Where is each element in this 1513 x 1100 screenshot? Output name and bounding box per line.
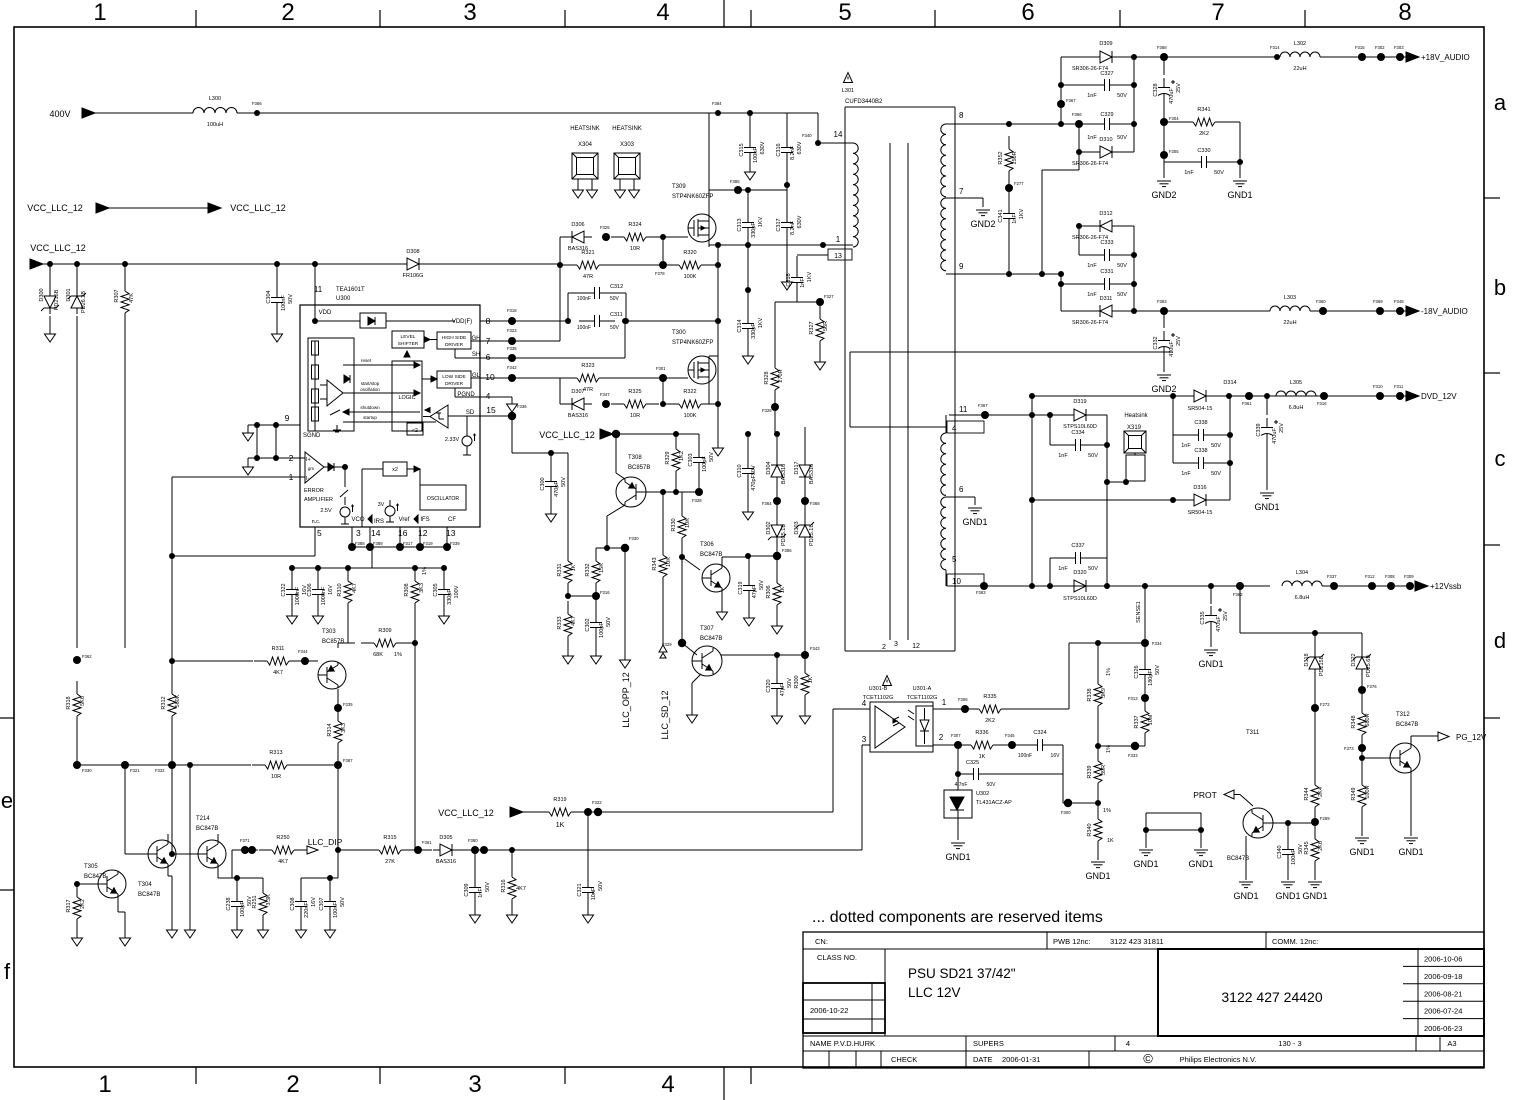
svg-text:R332: R332: [585, 563, 591, 576]
resistor R250 4K7: [259, 849, 272, 851]
svg-text:50V: 50V: [759, 580, 765, 590]
svg-text:SGND: SGND: [303, 433, 321, 439]
svg-text:50V: 50V: [1211, 443, 1221, 449]
svg-text:D320: D320: [1073, 570, 1086, 576]
wire pin 11 row: [949, 414, 985, 416]
svg-text:CHECK: CHECK: [891, 1055, 917, 1064]
title block class cell: [884, 949, 886, 1036]
svg-text:F376: F376: [1367, 684, 1377, 689]
svg-text:SR306-26-F74: SR306-26-F74: [1072, 161, 1108, 167]
wire VCC_LLC_12 rail: [41, 263, 386, 265]
wire 400V rail: [93, 112, 193, 114]
wire T311 collector: [1251, 805, 1253, 810]
svg-text:100uH: 100uH: [207, 122, 223, 128]
optocoupler U301 box: [870, 702, 933, 752]
svg-text:HEATSINK: HEATSINK: [570, 126, 600, 132]
wire SD net down: [511, 416, 513, 453]
svg-text:14: 14: [834, 130, 843, 139]
column tick top: [750, 10, 752, 27]
svg-text:1nF: 1nF: [1087, 93, 1097, 99]
resistor R306 1K: [776, 556, 778, 572]
svg-text:2K2: 2K2: [1199, 131, 1209, 137]
wire logic to low side driver: [422, 378, 431, 380]
svg-text:D307: D307: [571, 389, 584, 395]
svg-text:630V: 630V: [797, 141, 803, 154]
resistor R337 10M: [1144, 698, 1146, 711]
wire C338 right rail: [1229, 396, 1231, 500]
svg-text:1nF: 1nF: [1181, 471, 1191, 477]
svg-text:F339: F339: [450, 541, 460, 546]
svg-text:D304: D304: [766, 461, 772, 474]
svg-text:D309: D309: [1099, 41, 1112, 47]
svg-text:100pF: 100pF: [599, 622, 605, 638]
svg-text:3K3: 3K3: [341, 723, 347, 733]
row tick right: [1484, 372, 1500, 374]
svg-text:T300: T300: [672, 330, 686, 336]
vertical gate t300 net: [559, 378, 561, 404]
svg-text:100nF: 100nF: [577, 296, 591, 302]
svg-text:F364: F364: [762, 501, 772, 506]
svg-text:R311: R311: [272, 646, 285, 652]
svg-text:12: 12: [912, 643, 920, 650]
wire T304 emitter: [167, 867, 169, 876]
svg-text:4K7: 4K7: [352, 583, 358, 593]
svg-text:470uF: 470uF: [1272, 428, 1278, 444]
svg-text:SD: SD: [466, 410, 475, 416]
svg-text:F316: F316: [600, 590, 610, 595]
svg-text:NAME P.V.D.HURK: NAME P.V.D.HURK: [810, 1039, 875, 1048]
svg-text:4: 4: [862, 699, 867, 708]
svg-text:DRIVER: DRIVER: [445, 381, 464, 387]
svg-text:n.c.: n.c.: [312, 519, 321, 525]
ground GND1 under T311: [1239, 881, 1253, 883]
svg-text:R344: R344: [1304, 787, 1310, 800]
zener D301 PD26.2B: [76, 264, 78, 290]
svg-text:100K: 100K: [684, 413, 697, 419]
svg-text:F362: F362: [82, 654, 92, 659]
junction F305: [1160, 151, 1168, 159]
svg-text:HEATSINK: HEATSINK: [612, 126, 642, 132]
shunt regulator U302 TL431ACZ-AP: [957, 774, 959, 790]
transformer pin 4 box: [947, 421, 984, 433]
svg-text:25V: 25V: [1176, 336, 1182, 346]
svg-text:4: 4: [952, 424, 957, 433]
svg-text:C314: C314: [737, 319, 743, 332]
svg-text:C321: C321: [577, 883, 583, 896]
svg-text:6: 6: [486, 352, 491, 362]
column tick bottom: [379, 1067, 381, 1084]
svg-text:C307: C307: [319, 897, 325, 910]
junction dots on VCC rail: [47, 261, 53, 267]
svg-text:BC847B: BC847B: [1396, 722, 1418, 728]
capacitor C309 1nF 50V: [474, 850, 476, 878]
svg-text:GND1: GND1: [1275, 891, 1300, 901]
svg-text:150R: 150R: [1012, 151, 1018, 164]
svg-text:630V: 630V: [760, 141, 766, 154]
svg-text:-18V_AUDIO: -18V_AUDIO: [1421, 307, 1468, 316]
junction F387: [334, 761, 342, 769]
svg-text:10K: 10K: [685, 518, 691, 528]
svg-text:5K6: 5K6: [80, 696, 86, 706]
capacitor C317 8.2nF 630V: [786, 185, 788, 212]
svg-text:D305: D305: [439, 835, 452, 841]
net PG_12V: [1438, 732, 1449, 741]
junction F300: [1064, 799, 1072, 807]
capacitor C305 330pF 100V: [443, 568, 445, 580]
svg-text:F318: F318: [507, 308, 517, 313]
svg-text:3K9: 3K9: [1101, 688, 1107, 698]
junction F347: [602, 400, 610, 408]
net LLC_SD_12 stub: [659, 645, 667, 652]
junction C335: [1208, 583, 1214, 589]
svg-text:R345: R345: [1304, 841, 1310, 854]
svg-text:1KV: 1KV: [1019, 208, 1025, 219]
transformer pin 10 box: [947, 574, 984, 586]
svg-text:STP4NK60ZFP: STP4NK60ZFP: [672, 194, 713, 200]
svg-text:F310: F310: [1373, 384, 1383, 389]
svg-text:400V: 400V: [49, 109, 70, 119]
svg-text:3: 3: [468, 1071, 481, 1098]
wire cap stack bus: [292, 567, 444, 569]
diode D310 SR306-26-F74: [1078, 124, 1080, 152]
svg-text:BC857B: BC857B: [322, 639, 344, 645]
title block check row: [803, 1050, 1484, 1052]
wire to opto pin4: [584, 811, 833, 813]
net VCC_LLC_12 arrow 2: [208, 203, 221, 213]
ground GND2 under C332: [1157, 374, 1171, 376]
svg-text:2006-10-22: 2006-10-22: [810, 1006, 848, 1015]
wire T306 base: [682, 557, 700, 570]
capacitor C312 100nF 50V: [567, 293, 569, 321]
svg-text:470uF: 470uF: [1216, 616, 1222, 632]
svg-text:C300: C300: [540, 477, 546, 490]
svg-text:15: 15: [486, 405, 496, 415]
capacitor C337 1nF 50V: [1049, 558, 1051, 586]
svg-text:Vref: Vref: [399, 517, 410, 523]
ground arrow PGND: [511, 397, 513, 404]
capacitor C326 180pF 50V: [1144, 643, 1146, 660]
svg-text:F345: F345: [1005, 733, 1015, 738]
svg-text:R327: R327: [809, 321, 815, 334]
svg-text:50V: 50V: [1117, 93, 1127, 99]
svg-text:SR504-15: SR504-15: [1188, 406, 1213, 412]
wire T307 base: [682, 643, 697, 655]
svg-text:100nF: 100nF: [753, 147, 759, 163]
svg-text:1K: 1K: [1107, 838, 1114, 844]
junction F347b: [981, 411, 989, 419]
svg-text:R308: R308: [404, 583, 410, 596]
svg-text:F363: F363: [1157, 299, 1167, 304]
svg-text:2006-08-21: 2006-08-21: [1424, 989, 1462, 998]
svg-text:D314: D314: [1223, 380, 1236, 386]
svg-text:TEA1601T: TEA1601T: [336, 287, 365, 293]
svg-text:C308: C308: [290, 897, 296, 910]
wire T305 base: [76, 765, 78, 884]
resistor R323 47R: [564, 377, 577, 379]
wire opto LED cathode: [957, 745, 959, 774]
svg-text:F387: F387: [343, 758, 353, 763]
diode D311 SR306-26-F74: [1060, 284, 1062, 311]
capacitor C315 100nF 630V: [749, 113, 751, 136]
svg-text:CUFD3440B2: CUFD3440B2: [845, 99, 883, 105]
junction F368b: [801, 497, 809, 505]
wire pin9 to D310 net: [1041, 170, 1043, 274]
ground arrow for D300: [49, 316, 51, 334]
svg-text:1%: 1%: [394, 652, 402, 658]
svg-text:D322: D322: [1351, 653, 1357, 666]
svg-text:oscillation: oscillation: [360, 387, 380, 392]
capacitor C319 47pF 50V: [748, 557, 750, 575]
switch and 2.5V source: [344, 467, 346, 487]
svg-text:4K7: 4K7: [273, 670, 283, 676]
svg-text:F330: F330: [82, 768, 92, 773]
resistor R328 270R: [774, 302, 776, 355]
svg-text:F386: F386: [782, 548, 792, 553]
svg-text:BAS316: BAS316: [809, 464, 815, 484]
wire T308 base: [644, 491, 663, 493]
capacitor C300 470pF 50V: [550, 453, 552, 471]
sheet fold mark top: [723, 0, 725, 27]
svg-text:STPS10L60D: STPS10L60D: [1063, 596, 1097, 602]
svg-text:330pF: 330pF: [751, 323, 757, 339]
svg-text:F304: F304: [1169, 116, 1179, 121]
svg-text:1nF: 1nF: [1058, 566, 1068, 572]
junction F386b: [1075, 120, 1083, 128]
svg-text:D317: D317: [794, 461, 800, 474]
svg-text:47K: 47K: [129, 293, 135, 303]
svg-text:R321: R321: [581, 250, 594, 256]
svg-text:50V: 50V: [1211, 471, 1221, 477]
svg-text:10R: 10R: [271, 774, 281, 780]
svg-text:1: 1: [93, 0, 106, 26]
svg-text:2: 2: [281, 0, 294, 26]
junction F342: [508, 374, 516, 382]
svg-text:T304: T304: [138, 882, 152, 888]
resistor R251 3.3K: [262, 880, 264, 893]
wire VDD pin 11: [314, 264, 316, 321]
junction F316b: [1320, 392, 1328, 400]
svg-text:6: 6: [959, 485, 964, 494]
svg-text:F306: F306: [958, 697, 968, 702]
svg-text:1nF: 1nF: [478, 888, 484, 898]
capacitor C340 100nF 50V: [1287, 823, 1289, 840]
wire T303 emitter: [337, 643, 339, 648]
junction F333: [1131, 742, 1139, 750]
junction F301: [659, 374, 667, 382]
resistor R321 47R: [564, 264, 577, 266]
svg-text:R328: R328: [764, 371, 770, 384]
wire prot rail: [1240, 632, 1362, 634]
svg-text:gm: gm: [308, 466, 315, 471]
reserved component placeholder: [1146, 812, 1201, 814]
diode at error amp out: [328, 463, 334, 471]
x2 box small: [407, 423, 423, 435]
ground GND1 under R340: [1091, 861, 1105, 863]
svg-text:L303: L303: [1284, 295, 1296, 301]
svg-text:12: 12: [418, 528, 428, 538]
wire T311 base from prot: [1252, 803, 1254, 805]
warning triangle L301: [844, 73, 853, 83]
svg-text:R317: R317: [66, 899, 72, 912]
svg-text:F367: F367: [978, 403, 988, 408]
svg-text:R343: R343: [652, 557, 658, 570]
resistor R312 560K: [171, 681, 173, 694]
svg-text:BC847B: BC847B: [84, 874, 106, 880]
svg-text:BC847B: BC847B: [700, 636, 722, 642]
svg-text:LLC 12V: LLC 12V: [908, 985, 961, 1000]
svg-text:Philips Electronics N.V.: Philips Electronics N.V.: [1180, 1055, 1257, 1064]
junction F373: [1358, 744, 1366, 752]
svg-text:LOGIC: LOGIC: [398, 395, 415, 401]
wire T311 collector to node: [1270, 822, 1315, 824]
svg-text:PWB 12nc:: PWB 12nc:: [1053, 937, 1091, 946]
junction F304: [1160, 118, 1168, 126]
wire GL row: [512, 377, 560, 379]
svg-text:F300: F300: [1061, 810, 1071, 815]
vertical halfbridge: [717, 245, 719, 265]
optocoupler LED box: [916, 706, 933, 746]
svg-text:100pF: 100pF: [702, 456, 708, 472]
svg-text:I+: I+: [306, 457, 311, 463]
svg-text:T306: T306: [700, 542, 714, 548]
svg-text:IRS: IRS: [374, 519, 384, 525]
svg-text:6: 6: [1021, 0, 1034, 26]
svg-text:R338: R338: [1087, 688, 1093, 701]
junction F277: [1005, 184, 1013, 192]
svg-text:X319: X319: [1127, 425, 1142, 431]
capacitor C307 100nF 50V: [329, 878, 331, 892]
ground GND1 under C340: [1281, 881, 1295, 883]
svg-text:A3: A3: [1447, 1039, 1456, 1048]
svg-text:VCC_LLC_12: VCC_LLC_12: [230, 203, 286, 213]
svg-text:9: 9: [285, 413, 290, 423]
wire VDD(F) row: [315, 320, 360, 322]
svg-text:47pF: 47pF: [752, 585, 758, 598]
svg-text:F347: F347: [600, 392, 610, 397]
svg-text:5: 5: [838, 0, 851, 26]
svg-text:IFS: IFS: [420, 517, 429, 523]
svg-text:C340: C340: [1277, 845, 1283, 858]
svg-text:R329: R329: [665, 451, 671, 464]
-18V_AUDIO rail: [1164, 310, 1270, 312]
svg-text:c: c: [1495, 446, 1506, 471]
svg-text:R316: R316: [501, 879, 507, 892]
wire divider top: [1069, 642, 1145, 644]
junction F272: [1311, 704, 1319, 712]
svg-text:F314: F314: [1270, 45, 1280, 50]
capacitor C306 1000nF 16V: [317, 568, 319, 580]
svg-text:50V: 50V: [610, 325, 620, 331]
svg-text:4: 4: [661, 1071, 674, 1098]
junction SENSE1: [1142, 583, 1148, 589]
junction F330: [621, 544, 629, 552]
svg-text:PD215B: PD215B: [1319, 655, 1325, 676]
svg-text:F361: F361: [422, 840, 432, 845]
svg-text:D316: D316: [1193, 485, 1206, 491]
wire startup oscillation: [343, 392, 420, 394]
svg-text:U300: U300: [336, 296, 351, 302]
svg-text:F321: F321: [130, 768, 140, 773]
junction F385: [734, 186, 742, 194]
resistor R316 4K7: [509, 847, 515, 853]
svg-text:x2: x2: [392, 467, 398, 473]
junction F364: [773, 497, 781, 505]
junction F307: [954, 741, 962, 749]
resistor R343 10K: [662, 492, 664, 544]
junction F332: [168, 761, 176, 769]
resistor R335 2K2: [966, 708, 979, 710]
svg-text:C319: C319: [738, 581, 744, 594]
wire T312 base: [1362, 757, 1390, 759]
svg-text:1K: 1K: [571, 564, 577, 571]
svg-text:D312: D312: [1099, 211, 1112, 217]
wire C307 C308 top: [301, 877, 338, 879]
svg-text:100nF: 100nF: [281, 295, 287, 311]
wire pin1: [172, 476, 305, 478]
svg-text:6.8uH: 6.8uH: [1289, 405, 1304, 411]
svg-text:1%: 1%: [422, 567, 428, 575]
svg-text:U302: U302: [976, 791, 989, 797]
svg-text:4K7: 4K7: [278, 859, 288, 865]
resistor R324 10R: [611, 236, 624, 238]
svg-text:LOW SIDE: LOW SIDE: [442, 374, 465, 380]
svg-text:15K: 15K: [599, 563, 605, 573]
svg-text:F308: F308: [1385, 574, 1395, 579]
svg-text:10M: 10M: [1148, 714, 1154, 725]
svg-text:ERROR: ERROR: [304, 488, 324, 494]
junction F313: [1141, 694, 1149, 702]
svg-text:R331: R331: [557, 563, 563, 576]
svg-text:LEVEL: LEVEL: [401, 334, 416, 340]
svg-text:F323: F323: [507, 328, 517, 333]
svg-text:1K2: 1K2: [679, 451, 685, 461]
capacitor C335 470uF 25V: [1210, 586, 1212, 604]
svg-text:F366: F366: [1072, 112, 1082, 117]
wire TL431 to F300: [958, 802, 1063, 804]
resistor R333 4K7: [567, 601, 569, 614]
junction F340: [815, 140, 821, 146]
svg-text:+18V_AUDIO: +18V_AUDIO: [1421, 53, 1470, 62]
svg-text:F366: F366: [252, 101, 262, 106]
junction F371: [241, 846, 249, 854]
wire T303 collector: [337, 689, 339, 708]
svg-text:50V: 50V: [787, 678, 793, 688]
svg-text:7: 7: [1211, 0, 1224, 26]
svg-text:1nF: 1nF: [1184, 170, 1194, 176]
svg-text:F330: F330: [629, 536, 639, 541]
svg-text:SH: SH: [472, 352, 480, 358]
capacitor C303 100pF 50V: [698, 434, 700, 448]
svg-text:39R: 39R: [1101, 765, 1107, 775]
svg-text:2: 2: [882, 644, 886, 651]
svg-text:50V: 50V: [987, 782, 997, 788]
svg-text:1nF: 1nF: [1087, 263, 1097, 269]
svg-text:F333: F333: [1128, 753, 1138, 758]
svg-text:GND1: GND1: [1349, 847, 1374, 857]
svg-text:GND1: GND1: [1233, 891, 1258, 901]
svg-text:D300: D300: [39, 288, 45, 301]
svg-text:27K: 27K: [385, 859, 395, 865]
svg-text:T308: T308: [628, 455, 642, 461]
svg-text:1: 1: [98, 1071, 111, 1098]
junction F368: [1160, 53, 1168, 61]
svg-text:R352: R352: [998, 151, 1004, 164]
svg-text:50V: 50V: [709, 452, 715, 462]
svg-text:FR106G: FR106G: [403, 273, 424, 279]
junction F322: [584, 808, 592, 816]
svg-text:130 - 3: 130 - 3: [1278, 1039, 1301, 1048]
svg-text:T312: T312: [1396, 712, 1410, 718]
